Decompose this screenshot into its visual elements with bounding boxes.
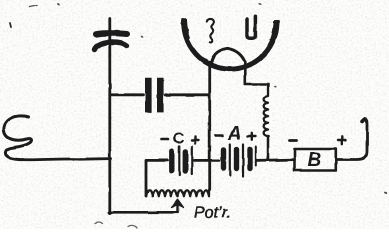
svg-text:A: A [227, 124, 242, 145]
label + for C battery [192, 137, 199, 144]
capacitor grid condenser top plate [96, 33, 127, 34]
label + for B battery [338, 137, 346, 144]
potentiometer wiper arrowhead [172, 199, 184, 207]
battery C plate thin 2 [191, 147, 193, 175]
label + for A battery [248, 133, 256, 140]
stray mark top dash [30, 6, 38, 8]
battery B box [295, 149, 336, 171]
tube V1 filament dome [212, 48, 245, 62]
battery C plate thin 1 [178, 147, 180, 176]
stray mark comma [10, 23, 11, 27]
tube V1 envelope end blob right [275, 21, 277, 34]
tube V1 envelope [184, 18, 277, 69]
battery A plate thick 3 [247, 150, 252, 169]
stray mark dot mid [142, 36, 143, 39]
tube V1 grid squiggle [207, 19, 214, 43]
wire: C battery to A battery bus [194, 159, 219, 162]
potentiometer zigzag [146, 190, 209, 196]
stray mark dot resistor [275, 85, 276, 88]
terminal hook [362, 119, 367, 122]
wire: resistor to battery bus [267, 136, 270, 160]
stray mark dot tube [259, 3, 260, 5]
svg-text:C: C [173, 131, 185, 148]
resistor R1 squiggle [264, 84, 268, 136]
battery A plate thin 2 [242, 145, 244, 177]
stray mark dot [58, 3, 59, 6]
stray mark bottom left [95, 223, 103, 224]
tube V1 envelope end blob left [184, 20, 186, 33]
battery C plate thick 2 [183, 152, 188, 172]
label - for A battery [216, 134, 223, 137]
battery A plate thick 1 [221, 150, 226, 169]
wire: main left vertical [108, 19, 111, 214]
potentiometer wiper arrow shaft [176, 205, 178, 213]
wire: C battery loop left [146, 160, 168, 196]
stray mark dot right [385, 191, 386, 194]
battery A plate thin 1 [229, 145, 231, 176]
wire: filament left lead / right vertical [208, 62, 211, 190]
battery A plate thick 2 [234, 150, 239, 169]
capacitor grid condenser bottom plate [95, 42, 127, 50]
wire: plate lead to resistor [245, 62, 268, 85]
label - for C battery [162, 138, 169, 141]
capacitor coupling left plate [145, 78, 152, 113]
capacitor coupling right plate [157, 78, 164, 113]
wire: B battery to output terminal [336, 121, 367, 160]
battery A plate thin 3 [255, 147, 257, 166]
wire: bottom return [109, 211, 178, 214]
battery C plate thick 1 [169, 152, 174, 172]
tube V1 plate [247, 16, 255, 38]
wire: A battery to B battery [257, 158, 295, 162]
svg-text:Pot’r.: Pot’r. [194, 205, 231, 222]
label - for B battery [290, 139, 297, 142]
wire: antenna lead to grid node [23, 159, 111, 160]
stray mark bottom center [128, 225, 137, 227]
wire: grid horizontal with coupling capacitor [110, 93, 209, 96]
svg-text:B: B [308, 150, 322, 171]
antenna scribble [4, 116, 32, 160]
